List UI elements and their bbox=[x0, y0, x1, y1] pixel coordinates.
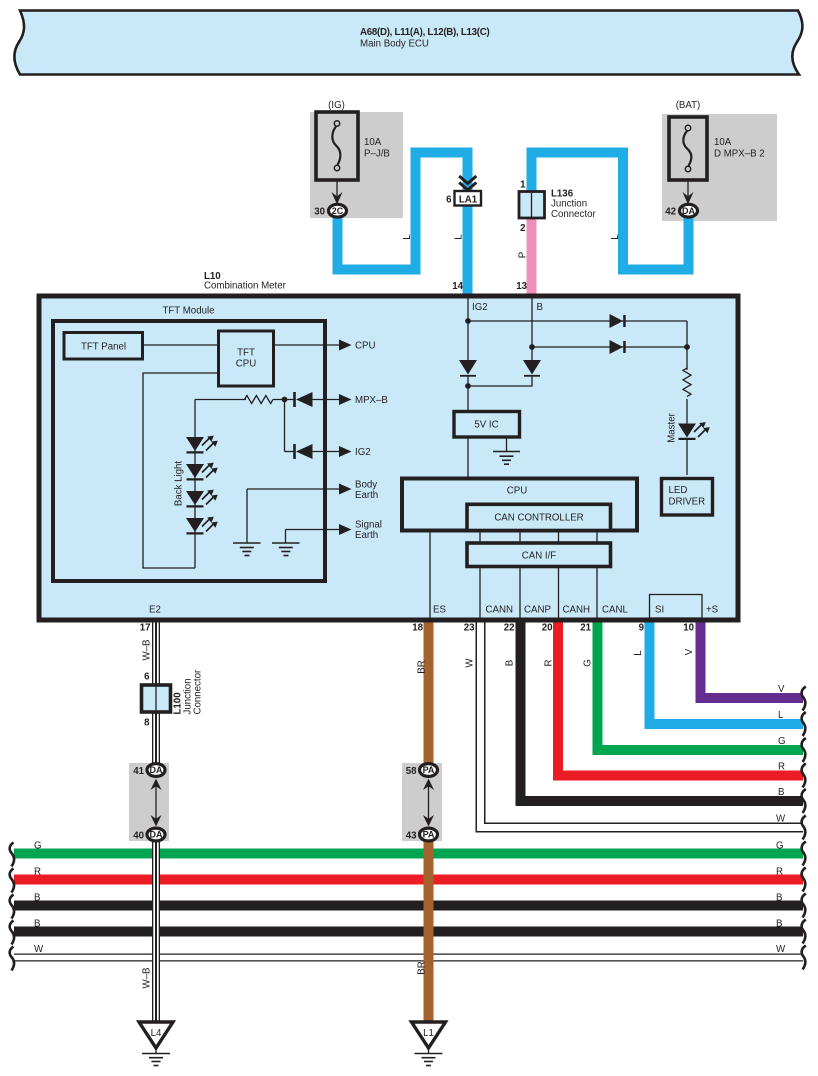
svg-text:G: G bbox=[778, 736, 786, 747]
svg-text:22: 22 bbox=[504, 623, 515, 634]
svg-text:P: P bbox=[518, 252, 529, 258]
svg-text:CAN CONTROLLER: CAN CONTROLLER bbox=[494, 513, 583, 524]
svg-text:13: 13 bbox=[516, 281, 527, 292]
svg-text:CANP: CANP bbox=[524, 605, 551, 616]
svg-text:6: 6 bbox=[446, 195, 452, 206]
svg-text:43: 43 bbox=[406, 831, 417, 842]
svg-text:TFT: TFT bbox=[237, 348, 255, 359]
svg-text:P–J/B: P–J/B bbox=[364, 149, 390, 160]
svg-text:10: 10 bbox=[683, 623, 694, 634]
svg-text:LA1: LA1 bbox=[459, 194, 478, 205]
svg-text:41: 41 bbox=[133, 766, 144, 777]
svg-text:TFT Module: TFT Module bbox=[162, 306, 214, 317]
svg-text:2: 2 bbox=[520, 223, 525, 234]
svg-text:W: W bbox=[776, 944, 786, 955]
svg-text:A68(D), L11(A), L12(B), L13(C): A68(D), L11(A), L12(B), L13(C) bbox=[360, 27, 489, 38]
svg-text:MPX–B: MPX–B bbox=[355, 395, 388, 406]
svg-text:CPU: CPU bbox=[236, 359, 256, 370]
svg-text:1: 1 bbox=[520, 180, 526, 191]
svg-text:D MPX–B 2: D MPX–B 2 bbox=[714, 149, 765, 160]
svg-text:2C: 2C bbox=[332, 206, 344, 216]
svg-text:9: 9 bbox=[639, 623, 645, 634]
svg-text:SI: SI bbox=[655, 605, 664, 616]
svg-text:(BAT): (BAT) bbox=[676, 100, 701, 111]
svg-text:B: B bbox=[778, 787, 784, 798]
svg-text:R: R bbox=[778, 762, 785, 773]
svg-text:Master: Master bbox=[667, 412, 678, 442]
svg-text:ES: ES bbox=[433, 605, 446, 616]
svg-text:G: G bbox=[583, 659, 594, 667]
svg-text:L: L bbox=[633, 650, 644, 656]
svg-text:R: R bbox=[34, 867, 41, 878]
svg-text:CANH: CANH bbox=[563, 605, 590, 616]
svg-text:10A: 10A bbox=[714, 137, 732, 148]
svg-text:L136: L136 bbox=[551, 189, 574, 200]
svg-text:Combination Meter: Combination Meter bbox=[204, 281, 287, 292]
svg-text:PA: PA bbox=[423, 765, 435, 775]
svg-text:CPU: CPU bbox=[507, 486, 527, 497]
svg-text:Signal: Signal bbox=[355, 520, 382, 531]
svg-text:10A: 10A bbox=[364, 137, 382, 148]
svg-text:Back Light: Back Light bbox=[174, 461, 185, 507]
svg-text:DA: DA bbox=[682, 206, 695, 216]
svg-text:G: G bbox=[776, 841, 784, 852]
svg-text:Main Body ECU: Main Body ECU bbox=[360, 39, 429, 50]
svg-text:E2: E2 bbox=[149, 605, 161, 616]
svg-text:BR: BR bbox=[417, 961, 428, 974]
svg-text:B: B bbox=[776, 893, 782, 904]
svg-text:PA: PA bbox=[423, 830, 435, 840]
svg-text:V: V bbox=[684, 648, 695, 655]
svg-text:G: G bbox=[34, 841, 42, 852]
svg-text:40: 40 bbox=[133, 831, 144, 842]
svg-text:W–B: W–B bbox=[142, 640, 153, 661]
svg-text:+S: +S bbox=[706, 605, 719, 616]
svg-text:20: 20 bbox=[542, 623, 553, 634]
svg-text:L: L bbox=[610, 234, 621, 240]
svg-text:L: L bbox=[402, 234, 413, 240]
svg-text:L: L bbox=[454, 234, 465, 240]
svg-text:TFT Panel: TFT Panel bbox=[81, 342, 126, 353]
svg-text:58: 58 bbox=[406, 766, 417, 777]
svg-text:L4: L4 bbox=[151, 1028, 162, 1039]
svg-text:30: 30 bbox=[314, 207, 325, 218]
svg-text:W: W bbox=[34, 944, 44, 955]
svg-text:18: 18 bbox=[412, 623, 423, 634]
svg-text:Connector: Connector bbox=[193, 669, 204, 714]
svg-text:R: R bbox=[544, 660, 555, 667]
svg-text:17: 17 bbox=[140, 623, 151, 634]
svg-text:R: R bbox=[776, 867, 783, 878]
svg-text:W–B: W–B bbox=[142, 968, 153, 989]
svg-text:B: B bbox=[34, 919, 40, 930]
svg-text:L10: L10 bbox=[204, 271, 221, 282]
svg-text:42: 42 bbox=[665, 207, 676, 218]
svg-text:BR: BR bbox=[417, 660, 428, 673]
svg-text:IG2: IG2 bbox=[355, 447, 371, 458]
svg-text:B: B bbox=[505, 660, 516, 666]
svg-text:6: 6 bbox=[144, 672, 150, 683]
svg-text:B: B bbox=[34, 893, 40, 904]
svg-text:14: 14 bbox=[452, 281, 463, 292]
svg-text:W: W bbox=[776, 814, 786, 825]
svg-text:21: 21 bbox=[580, 623, 591, 634]
svg-text:CPU: CPU bbox=[355, 341, 375, 352]
svg-text:23: 23 bbox=[464, 623, 475, 634]
svg-text:CAN I/F: CAN I/F bbox=[522, 551, 557, 562]
svg-text:B: B bbox=[776, 919, 782, 930]
svg-text:8: 8 bbox=[144, 718, 150, 729]
svg-text:CANN: CANN bbox=[486, 605, 513, 616]
svg-text:CANL: CANL bbox=[602, 605, 628, 616]
svg-text:Connector: Connector bbox=[551, 209, 596, 220]
svg-text:Body: Body bbox=[355, 480, 377, 491]
svg-text:DA: DA bbox=[150, 765, 163, 775]
svg-text:B: B bbox=[537, 302, 543, 313]
svg-text:Earth: Earth bbox=[355, 530, 378, 541]
svg-text:LED: LED bbox=[669, 485, 688, 496]
svg-text:L: L bbox=[778, 710, 784, 721]
svg-text:V: V bbox=[778, 684, 785, 695]
svg-text:Earth: Earth bbox=[355, 490, 378, 501]
svg-text:DRIVER: DRIVER bbox=[669, 497, 706, 508]
svg-text:IG2: IG2 bbox=[472, 302, 488, 313]
svg-text:L1: L1 bbox=[423, 1028, 434, 1039]
svg-text:DA: DA bbox=[150, 830, 163, 840]
svg-text:W: W bbox=[465, 658, 476, 668]
svg-text:5V IC: 5V IC bbox=[474, 420, 498, 431]
svg-text:(IG): (IG) bbox=[328, 100, 345, 111]
svg-text:Junction: Junction bbox=[551, 199, 587, 210]
